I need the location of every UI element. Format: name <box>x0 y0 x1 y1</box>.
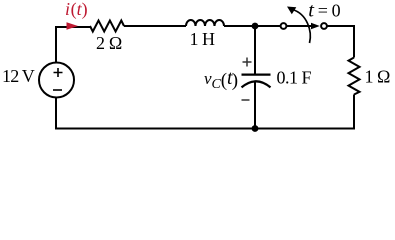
switch right contact <box>321 23 327 29</box>
voltage source V1 12V circle <box>39 63 74 98</box>
wire L1 to node A <box>224 25 281 27</box>
svg-text:i: i <box>65 0 70 19</box>
resistor R1 2 ohm <box>90 21 124 32</box>
current arrow i(t) <box>67 22 79 29</box>
svg-text:): ) <box>82 0 88 20</box>
svg-text:12 V: 12 V <box>2 66 35 86</box>
label t = 0 <box>308 0 340 22</box>
label i(t) <box>65 0 88 20</box>
switch blade wire with arrow <box>287 23 320 29</box>
svg-text:= 0: = 0 <box>318 1 341 21</box>
svg-text:2 Ω: 2 Ω <box>96 33 122 53</box>
wire switch to top-right corner <box>327 26 354 58</box>
voltage source minus sign <box>53 89 62 91</box>
label 12 V <box>2 66 35 86</box>
capacitor C1 top plate <box>242 73 271 75</box>
label vC(t) <box>204 68 238 92</box>
label 0.1 F <box>277 68 312 88</box>
capacitor plus sign <box>243 58 252 67</box>
svg-text:0.1 F: 0.1 F <box>277 68 312 88</box>
switch motion arc <box>287 7 310 44</box>
node A junction dot <box>252 23 259 30</box>
svg-text:1 H: 1 H <box>190 29 216 49</box>
wire node A to capacitor <box>254 26 256 74</box>
wire R1 to L1 <box>124 25 186 27</box>
label 1 H <box>190 29 216 49</box>
switch left contact <box>281 23 287 29</box>
svg-text:): ) <box>232 70 238 91</box>
capacitor C1 bottom plate arc <box>242 81 271 87</box>
label 1 ohm <box>365 67 391 87</box>
resistor R2 1 ohm <box>349 58 360 95</box>
wire top-left corner to resistor R1 <box>56 27 90 63</box>
inductor L1 1 H <box>186 20 224 26</box>
node B junction dot <box>252 125 259 132</box>
svg-text:t: t <box>308 0 315 22</box>
svg-text:1 Ω: 1 Ω <box>365 67 391 87</box>
label 2 ohm <box>96 33 122 53</box>
wire bottom to source <box>56 98 255 129</box>
wire capacitor to node B <box>254 82 256 129</box>
wire R2 to bottom-right corner <box>255 95 354 129</box>
capacitor minus sign <box>242 99 250 101</box>
voltage source plus sign <box>54 68 63 77</box>
